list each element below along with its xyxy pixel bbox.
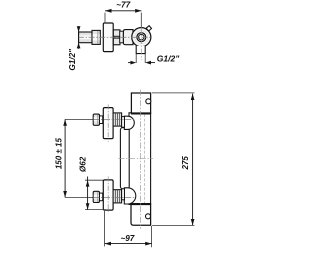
G1/2 left dim line bbox=[78, 26, 80, 49]
screw hole bottom bbox=[146, 214, 151, 219]
ring top bbox=[122, 117, 125, 128]
ext line right / knob centerline bbox=[140, 13, 142, 28]
G1/2 left arrows (pointing inward) bbox=[77, 26, 81, 32]
knob housing circle (top view) bbox=[132, 28, 151, 47]
escutcheon flange (top view) bbox=[103, 23, 113, 52]
small cylinder (top view) bbox=[120, 31, 124, 43]
horizontal mid centerline bbox=[119, 157, 154, 159]
centerline overlay: top flange vertical bbox=[107, 105, 109, 143]
wall stub block bottom bbox=[93, 191, 99, 202]
svg-text:~97: ~97 bbox=[120, 234, 134, 243]
axis line top bbox=[65, 118, 93, 120]
knob mid circle bbox=[137, 33, 146, 42]
svg-text:G1/2": G1/2" bbox=[157, 53, 180, 63]
union nut w/ groove (top view) bbox=[113, 30, 120, 45]
neck bottom bbox=[100, 193, 103, 201]
bottom union dome bbox=[124, 188, 135, 204]
hex nut on stub (top view) bbox=[92, 30, 100, 44]
vertical centerline of body bbox=[140, 90, 142, 229]
svg-text:150 ± 15: 150 ± 15 bbox=[54, 138, 63, 170]
union nut bottom (front) bbox=[113, 190, 122, 203]
axis line bottom bbox=[65, 196, 93, 198]
faint ring bbox=[135, 31, 148, 44]
wall stub block top bbox=[93, 114, 99, 125]
screw hole top bbox=[146, 99, 151, 104]
wall stub (top view) bbox=[79, 32, 92, 43]
outlet stub below knob (top view) bbox=[136, 46, 145, 54]
top mounting block bbox=[131, 93, 150, 113]
centerline overlay: bottom connection axis bbox=[93, 196, 135, 198]
hidden line in bar bbox=[144, 114, 146, 204]
neck top bbox=[100, 116, 103, 124]
escutcheon flange bottom (front) bbox=[103, 180, 113, 210]
centerline overlay: bottom flange vertical bbox=[107, 177, 109, 214]
union nut top (front) bbox=[113, 113, 122, 126]
escutcheon flange top (front) bbox=[103, 108, 113, 139]
main bar (mid) bbox=[129, 113, 151, 205]
knob inner circle bbox=[139, 34, 145, 40]
dim ~77 arrows bbox=[105, 9, 112, 13]
svg-text:275: 275 bbox=[181, 156, 190, 171]
G1/2 right arrows pointing inward bbox=[128, 62, 131, 64]
thick shoulder line under top block bbox=[131, 112, 151, 114]
centerline overlay: top connection axis bbox=[93, 118, 135, 120]
bottom mounting block bbox=[131, 204, 151, 225]
valve body (top view) bbox=[123, 30, 133, 45]
ext line left (~77) bbox=[104, 13, 106, 24]
thick shoulder line over bottom block bbox=[131, 203, 151, 205]
ring bottom bbox=[122, 189, 125, 200]
cartridge tube between unions bbox=[120, 128, 129, 189]
knob tab (top view) bbox=[146, 26, 151, 31]
svg-text:G1/2": G1/2" bbox=[68, 49, 77, 71]
top union dome bbox=[124, 116, 134, 129]
centerline horizontal top view bbox=[78, 36, 152, 38]
svg-text:~77: ~77 bbox=[116, 1, 130, 10]
svg-text:Ø62: Ø62 bbox=[79, 156, 88, 172]
dim ~77 line bbox=[105, 10, 141, 12]
G1/2 right: ext lines from outlet bbox=[135, 54, 137, 63]
